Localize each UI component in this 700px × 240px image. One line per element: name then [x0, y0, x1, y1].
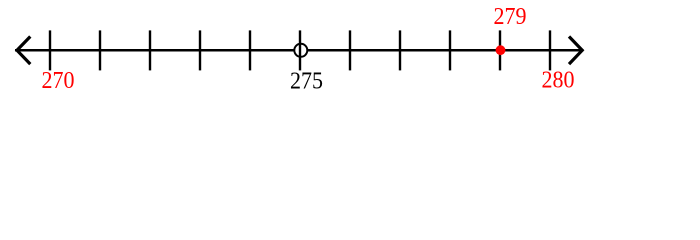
open circle at 275 — [294, 44, 307, 57]
svg-text:280: 280 — [542, 68, 575, 94]
tick 271 — [99, 30, 101, 70]
tick 280 — [549, 30, 551, 70]
number line axis — [15, 49, 584, 52]
red point at 279 — [496, 45, 506, 55]
left arrowhead — [17, 37, 30, 65]
tick 279 — [499, 30, 501, 70]
right arrowhead — [569, 37, 582, 65]
tick 273 — [199, 30, 201, 70]
tick 275 — [299, 30, 301, 70]
tick 277 — [399, 30, 401, 70]
svg-text:275: 275 — [290, 68, 323, 94]
tick 276 — [349, 30, 351, 70]
svg-text:270: 270 — [42, 68, 75, 94]
tick 270 — [49, 30, 51, 70]
svg-text:279: 279 — [494, 4, 527, 30]
tick 274 — [249, 30, 251, 70]
tick 272 — [149, 30, 151, 70]
tick 278 — [449, 30, 451, 70]
